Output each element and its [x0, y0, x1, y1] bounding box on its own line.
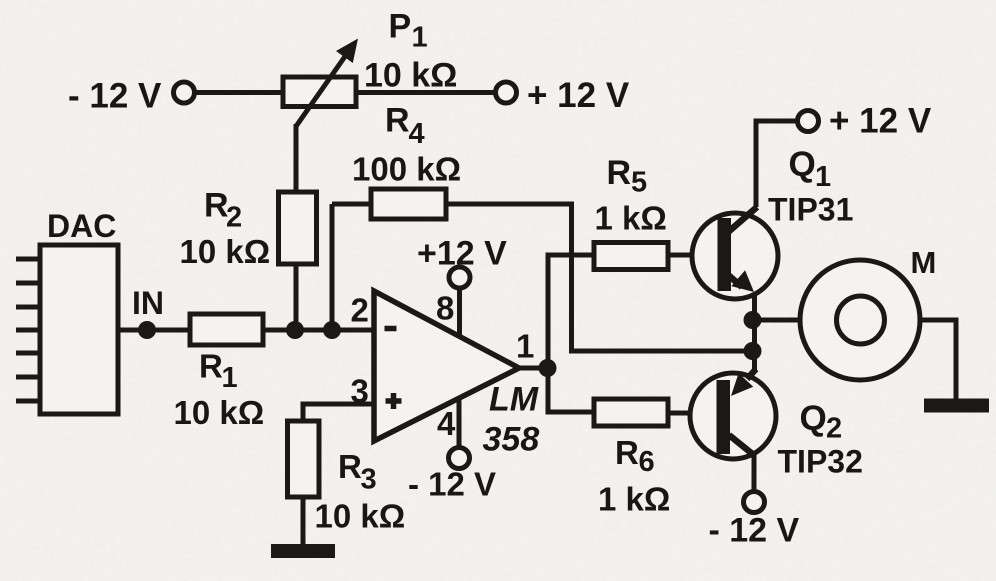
svg-text:- 12 V: - 12 V: [709, 512, 800, 550]
svg-text:DAC: DAC: [47, 208, 116, 244]
svg-text:1: 1: [516, 328, 534, 365]
svg-text:100 kΩ: 100 kΩ: [352, 151, 461, 188]
svg-text:3: 3: [351, 373, 369, 410]
svg-text:4: 4: [409, 118, 425, 150]
svg-text:R: R: [204, 187, 229, 225]
svg-text:1 kΩ: 1 kΩ: [598, 481, 670, 518]
svg-text:LM: LM: [489, 381, 539, 419]
svg-text:M: M: [911, 245, 937, 280]
svg-text:R: R: [199, 348, 223, 385]
svg-text:10 kΩ: 10 kΩ: [315, 498, 406, 535]
svg-text:6: 6: [639, 446, 655, 478]
svg-text:Q: Q: [800, 399, 827, 438]
svg-text:2: 2: [826, 413, 842, 445]
svg-text:IN: IN: [132, 285, 164, 321]
svg-text:R: R: [607, 154, 632, 192]
svg-text:10 kΩ: 10 kΩ: [364, 57, 457, 95]
svg-text:5: 5: [631, 167, 647, 199]
svg-text:R: R: [338, 448, 362, 485]
svg-text:1: 1: [815, 161, 831, 193]
svg-text:358: 358: [483, 421, 540, 459]
svg-text:3: 3: [361, 464, 377, 496]
svg-text:R: R: [385, 102, 410, 140]
svg-text:R: R: [615, 434, 639, 471]
svg-text:2: 2: [226, 202, 242, 234]
svg-text:- 12 V: - 12 V: [408, 466, 496, 503]
svg-text:+ 12 V: + 12 V: [527, 76, 630, 115]
svg-text:Q: Q: [789, 145, 816, 184]
svg-text:1 kΩ: 1 kΩ: [595, 200, 667, 237]
svg-text:+12 V: +12 V: [417, 235, 507, 273]
svg-text:1: 1: [222, 362, 238, 394]
svg-text:8: 8: [436, 290, 454, 327]
svg-text:+ 12 V: + 12 V: [829, 102, 932, 141]
svg-text:10 kΩ: 10 kΩ: [180, 233, 271, 270]
svg-text:1: 1: [412, 22, 428, 54]
svg-text:TIP32: TIP32: [778, 444, 863, 480]
svg-text:4: 4: [437, 405, 456, 442]
svg-text:10 kΩ: 10 kΩ: [174, 394, 265, 431]
svg-text:- 12 V: - 12 V: [68, 77, 162, 116]
svg-text:TIP31: TIP31: [768, 192, 853, 228]
svg-text:P: P: [389, 8, 412, 46]
svg-text:2: 2: [351, 292, 369, 329]
